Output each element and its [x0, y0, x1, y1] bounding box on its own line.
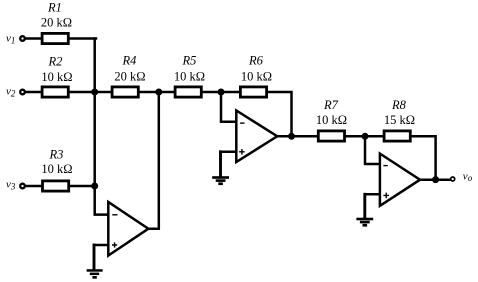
resistor R3: [43, 181, 69, 191]
svg-text:R8: R8: [391, 98, 407, 112]
ground (op-amp U1): [87, 269, 103, 279]
svg-text:R2: R2: [48, 54, 63, 68]
terminal v2: [20, 90, 25, 95]
wire op-amp U2 output to R7: [277, 135, 319, 138]
node A (summing node): [91, 89, 98, 96]
resistor R4: [112, 87, 138, 97]
op-amp U2 minus sign: [240, 122, 244, 124]
svg-text:20 kΩ: 20 kΩ: [114, 69, 145, 83]
resistor R1: [42, 33, 68, 43]
wire R7 to R8 through node D: [346, 135, 384, 138]
svg-text:R5: R5: [182, 54, 197, 68]
wire R6 to op-amp U2 output: [268, 92, 292, 136]
resistor R6: [240, 87, 266, 97]
op-amp U1: [108, 202, 148, 256]
wire v3 to R3: [25, 185, 42, 188]
wire ground stem U3: [363, 194, 366, 218]
wire R2 to R4 through node A: [69, 91, 111, 94]
resistor R5: [175, 87, 201, 97]
wire node D to op-amp U3 inverting input: [365, 136, 380, 164]
svg-text:10 kΩ: 10 kΩ: [41, 162, 72, 176]
wire R5 to R6: [202, 91, 239, 94]
svg-text:10 kΩ: 10 kΩ: [241, 69, 272, 83]
node B (R4/R5 junction): [155, 89, 162, 96]
ground (op-amp U3): [356, 218, 373, 227]
wire op-amp U3 output to terminal vo: [420, 178, 451, 181]
wire R3 to bus A: [70, 185, 96, 188]
wire ground stem U1: [93, 245, 96, 270]
wire ground stem U2: [219, 152, 222, 177]
wire R4 to R5: [140, 91, 175, 94]
wire v2 to R2: [25, 91, 42, 94]
node C (R5/R6 junction): [218, 89, 225, 96]
terminal vo: [451, 177, 455, 181]
svg-text:10 kΩ: 10 kΩ: [316, 113, 347, 127]
terminal v1: [20, 36, 25, 41]
resistor R2: [42, 87, 68, 97]
svg-text:R3: R3: [49, 148, 64, 162]
svg-text:10 kΩ: 10 kΩ: [41, 70, 72, 84]
node D (R7/R8 junction): [362, 133, 369, 140]
ground (op-amp U2): [212, 176, 229, 185]
op-amp U3: [380, 154, 420, 206]
wire v1 to R1: [25, 37, 42, 40]
svg-text:R4: R4: [122, 54, 137, 68]
terminal v3: [20, 184, 25, 189]
svg-text:20 kΩ: 20 kΩ: [41, 16, 72, 30]
wire R8 to op-amp U3 output: [411, 136, 436, 179]
node U3 output junction: [432, 176, 439, 183]
wire node C to op-amp U2 inverting input: [221, 92, 236, 122]
wire op-amp U3 noninverting input to ground: [365, 193, 380, 196]
wire bus A vertical: [95, 39, 109, 215]
svg-text:10 kΩ: 10 kΩ: [174, 69, 205, 83]
svg-text:R6: R6: [248, 54, 264, 68]
resistor R8: [384, 131, 410, 141]
op-amp U2 plus sign: [239, 149, 245, 155]
svg-text:R7: R7: [323, 98, 339, 112]
node U2 output junction: [288, 133, 295, 140]
svg-text:R1: R1: [47, 0, 62, 14]
resistor R7: [318, 131, 344, 141]
op-amp U3 plus sign: [383, 193, 389, 199]
op-amp U1 minus sign: [112, 214, 117, 216]
op-amp U3 minus sign: [383, 165, 387, 167]
svg-text:vo: vo: [463, 170, 473, 183]
wire op-amp U1 noninverting input to ground: [94, 244, 109, 247]
svg-text:15 kΩ: 15 kΩ: [384, 113, 415, 127]
wire R1 to bus A: [69, 37, 96, 40]
wire op-amp U2 noninverting input to ground: [221, 151, 237, 154]
op-amp U2: [236, 111, 277, 163]
wire op-amp U1 output feedback to node B: [148, 92, 159, 229]
node A2 (R3 junction): [91, 183, 98, 190]
op-amp U1 plus sign: [112, 242, 117, 247]
